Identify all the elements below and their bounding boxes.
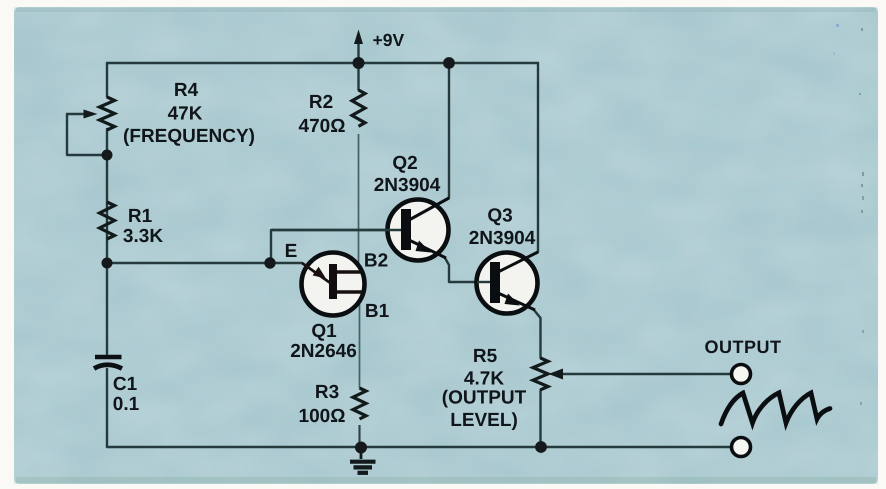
svg-text:47K: 47K (168, 104, 203, 125)
svg-text:R2: R2 (309, 92, 333, 113)
svg-text:OUTPUT: OUTPUT (705, 337, 782, 357)
svg-text:+9V: +9V (373, 30, 405, 50)
svg-text:B2: B2 (364, 251, 388, 272)
svg-text:B1: B1 (365, 301, 390, 322)
svg-text:C1: C1 (113, 374, 138, 395)
svg-text:R4: R4 (174, 80, 199, 101)
svg-text:0.1: 0.1 (113, 394, 140, 415)
svg-text:R5: R5 (473, 346, 498, 367)
svg-text:(FREQUENCY): (FREQUENCY) (123, 126, 255, 147)
svg-text:Q3: Q3 (487, 206, 512, 227)
svg-text:(OUTPUT: (OUTPUT (442, 388, 527, 409)
svg-text:4.7K: 4.7K (464, 369, 504, 390)
svg-text:100Ω: 100Ω (299, 406, 346, 427)
svg-text:3.3K: 3.3K (123, 226, 163, 247)
svg-text:E: E (285, 241, 298, 262)
svg-text:LEVEL): LEVEL) (450, 410, 518, 431)
svg-text:2N3904: 2N3904 (374, 175, 441, 196)
svg-text:2N3904: 2N3904 (469, 228, 536, 249)
svg-text:R3: R3 (315, 382, 339, 403)
svg-text:R1: R1 (128, 206, 153, 227)
svg-text:Q1: Q1 (311, 321, 337, 342)
svg-text:470Ω: 470Ω (299, 116, 346, 137)
svg-text:2N2646: 2N2646 (290, 341, 357, 362)
svg-text:Q2: Q2 (392, 153, 417, 174)
